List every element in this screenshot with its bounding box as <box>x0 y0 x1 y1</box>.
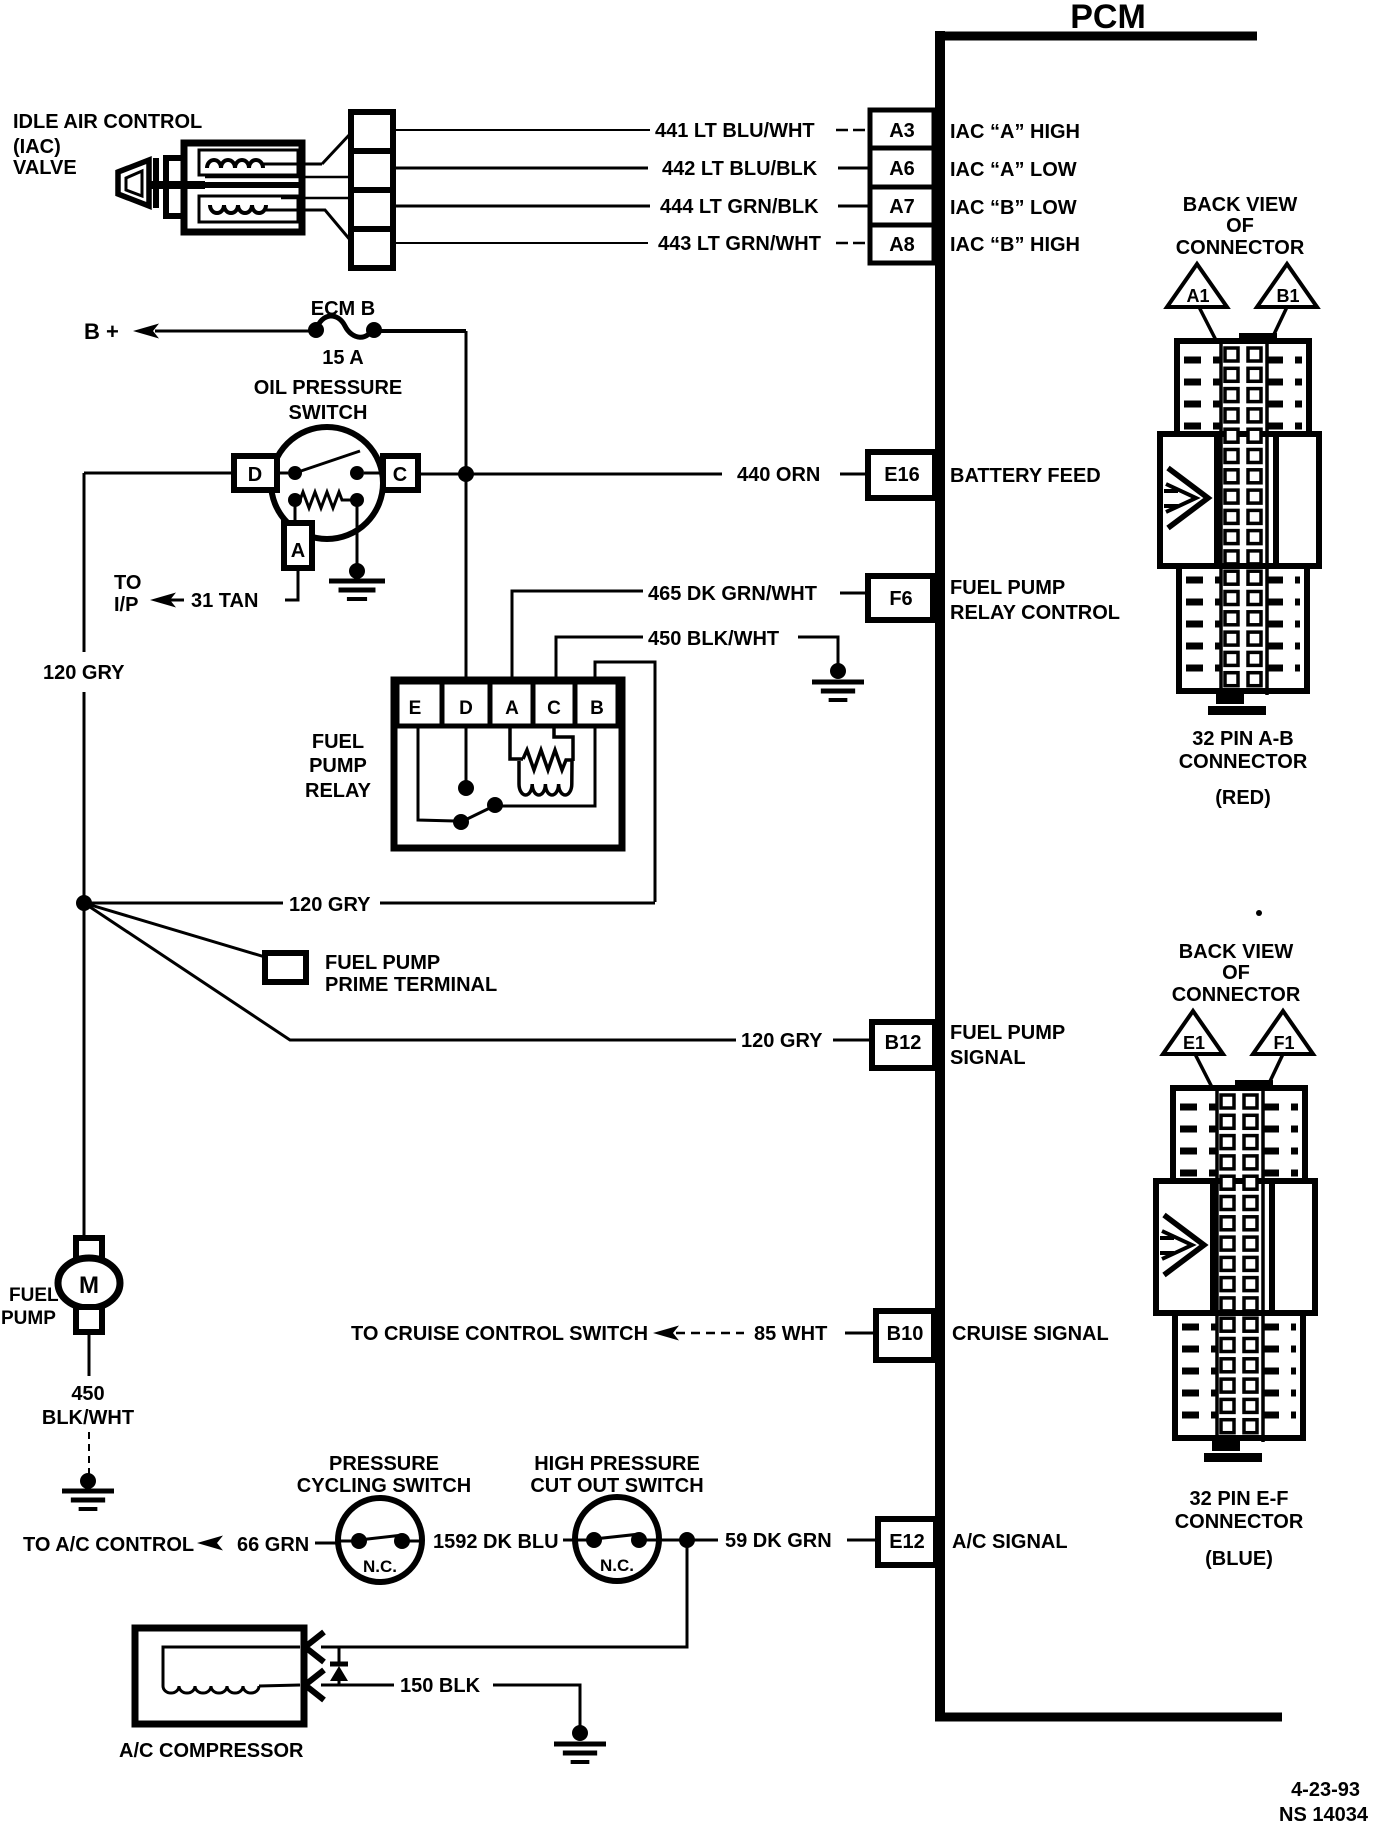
connector caption <box>1179 728 1308 809</box>
PCM boundary line <box>935 31 1282 1718</box>
label FUEL PUMP RELAY CONTROL <box>950 577 1120 624</box>
relay coil <box>510 726 573 795</box>
svg-text:SWITCH: SWITCH <box>289 402 368 424</box>
svg-text:441 LT BLU/WHT: 441 LT BLU/WHT <box>655 120 815 142</box>
wire vertical fuse to relay pin D <box>465 331 468 680</box>
svg-text:TO: TO <box>114 572 141 594</box>
IAC 4-pin connector strip <box>351 112 393 268</box>
svg-text:SIGNAL: SIGNAL <box>950 1047 1026 1069</box>
svg-text:E: E <box>409 698 422 719</box>
svg-text:IAC “B” LOW: IAC “B” LOW <box>950 197 1077 219</box>
wire relay pin B to 120 GRY bus <box>595 662 655 902</box>
wire 59 DK GRN <box>659 1539 718 1542</box>
arrow cruise <box>653 1326 679 1341</box>
svg-text:BATTERY FEED: BATTERY FEED <box>950 465 1101 487</box>
svg-text:IAC “A” HIGH: IAC “A” HIGH <box>950 121 1080 143</box>
IAC valve pintle cone <box>118 158 156 208</box>
svg-text:IAC “A” LOW: IAC “A” LOW <box>950 159 1077 181</box>
relay pin B <box>575 682 618 726</box>
wire 31 TAN to pin A <box>285 568 298 600</box>
svg-text:RELAY CONTROL: RELAY CONTROL <box>950 602 1120 624</box>
svg-text:BACK VIEW: BACK VIEW <box>1179 941 1294 963</box>
PCM pin A7 <box>870 187 934 225</box>
wire 120 GRY to B12 <box>84 903 736 1040</box>
svg-text:CONNECTOR: CONNECTOR <box>1175 1511 1304 1533</box>
svg-text:NS 14034: NS 14034 <box>1279 1804 1369 1826</box>
svg-text:120 GRY: 120 GRY <box>741 1030 823 1052</box>
relay pin A <box>490 682 533 726</box>
svg-text:150 BLK: 150 BLK <box>400 1675 481 1697</box>
svg-text:FUEL: FUEL <box>312 731 364 753</box>
svg-text:E1: E1 <box>1183 1033 1205 1053</box>
wire to prime terminal <box>84 903 265 957</box>
ground at 150 BLK <box>572 1725 588 1741</box>
junction at fuse drop <box>458 466 474 482</box>
svg-text:32 PIN E-F: 32 PIN E-F <box>1190 1488 1289 1510</box>
svg-text:PRESSURE: PRESSURE <box>329 1453 439 1475</box>
IAC valve stem <box>150 181 205 189</box>
svg-text:CUT OUT SWITCH: CUT OUT SWITCH <box>530 1475 703 1497</box>
svg-text:59 DK GRN: 59 DK GRN <box>725 1530 832 1552</box>
wire IAC coil A high to pin 1 <box>322 133 351 164</box>
svg-text:450: 450 <box>71 1383 104 1405</box>
svg-text:PRIME TERMINAL: PRIME TERMINAL <box>325 974 497 996</box>
relay switch common from pin D <box>465 726 468 782</box>
svg-text:D: D <box>459 698 473 719</box>
svg-text:F6: F6 <box>889 588 912 610</box>
svg-text:A/C COMPRESSOR: A/C COMPRESSOR <box>119 1740 304 1762</box>
ground at fuel pump <box>80 1473 96 1489</box>
svg-text:BLK/WHT: BLK/WHT <box>42 1407 134 1429</box>
wire IAC coil A low to pin 2 <box>205 176 351 179</box>
svg-text:32 PIN A-B: 32 PIN A-B <box>1192 728 1294 750</box>
PCM pin E16 <box>868 452 935 498</box>
relay pin E <box>397 682 442 726</box>
PCM pin B10 <box>876 1311 934 1360</box>
svg-text:B12: B12 <box>885 1032 922 1054</box>
svg-text:B: B <box>590 698 604 719</box>
svg-text:1592 DK BLU: 1592 DK BLU <box>433 1531 559 1553</box>
wire 120 GRY down to fuel pump <box>83 903 86 1238</box>
oil pressure switch pin C <box>383 456 418 490</box>
wire 441 <box>393 129 650 131</box>
svg-text:F1: F1 <box>1273 1033 1294 1053</box>
wire arrow to 31 TAN <box>164 599 184 602</box>
svg-text:E16: E16 <box>884 464 920 486</box>
svg-text:OF: OF <box>1226 215 1254 237</box>
svg-text:PCM: PCM <box>1070 0 1146 36</box>
svg-text:4-23-93: 4-23-93 <box>1291 1779 1360 1801</box>
svg-text:31 TAN: 31 TAN <box>191 590 258 612</box>
IAC coil A (top winding) <box>199 150 322 175</box>
label FUEL PUMP SIGNAL <box>950 1022 1065 1069</box>
wire 450 BLK/WHT from relay pin C <box>556 637 643 682</box>
svg-text:HIGH PRESSURE: HIGH PRESSURE <box>534 1453 700 1475</box>
wire B+ to fuse <box>155 330 316 333</box>
fuel pump relay box <box>394 680 622 848</box>
label TO I/P <box>114 572 141 616</box>
svg-text:FUEL PUMP: FUEL PUMP <box>325 952 440 974</box>
arrow to I/P <box>150 593 176 608</box>
drawing date <box>1279 1779 1369 1826</box>
PCM pin F6 <box>868 576 933 620</box>
svg-text:B +: B + <box>84 319 119 344</box>
fuse ECM B 15A <box>308 316 382 338</box>
svg-text:15 A: 15 A <box>322 347 364 369</box>
svg-text:IAC “B” HIGH: IAC “B” HIGH <box>950 234 1080 256</box>
connector back view title <box>1172 941 1301 1006</box>
switch contacts <box>277 451 383 480</box>
wire 85 WHT <box>676 1332 744 1335</box>
svg-text:C: C <box>393 464 407 486</box>
oil pressure switch pin A <box>284 523 312 568</box>
relay pin D <box>442 682 490 726</box>
fuel pump prime terminal <box>265 953 306 982</box>
svg-text:CONNECTOR: CONNECTOR <box>1172 984 1301 1006</box>
relay switch pole from pin E <box>418 726 455 821</box>
pin pointer E1 <box>1163 1011 1223 1099</box>
arrow into compressor top <box>305 1632 324 1662</box>
svg-text:IDLE AIR CONTROL: IDLE AIR CONTROL <box>13 111 202 133</box>
fuel pump relay label <box>305 731 372 802</box>
wire 465 DK GRN/WHT from relay pin A <box>512 591 643 682</box>
svg-text:N.C.: N.C. <box>363 1557 397 1576</box>
svg-text:B1: B1 <box>1276 286 1299 306</box>
svg-text:TO CRUISE CONTROL SWITCH: TO CRUISE CONTROL SWITCH <box>351 1323 648 1345</box>
IAC valve mounting bracket <box>166 158 184 216</box>
internal resistor <box>288 492 364 508</box>
connector back view title <box>1176 194 1305 259</box>
ground at 450 BLK/WHT <box>830 663 846 679</box>
wire 444 <box>393 205 650 208</box>
svg-text:E12: E12 <box>889 1531 925 1553</box>
wire 150 BLK <box>321 1684 394 1687</box>
svg-text:BACK VIEW: BACK VIEW <box>1183 194 1298 216</box>
IAC valve label <box>13 111 202 179</box>
fuel pump motor <box>58 1238 120 1332</box>
svg-text:CRUISE SIGNAL: CRUISE SIGNAL <box>952 1323 1109 1345</box>
svg-text:D: D <box>248 464 262 486</box>
diode at compressor clutch <box>330 1648 348 1685</box>
relay switch arm <box>461 805 496 822</box>
PCM pin E12 <box>878 1519 936 1565</box>
pressure cycling switch <box>338 1498 422 1582</box>
wire 450 BLK/WHT below pump <box>88 1332 91 1376</box>
svg-text:C: C <box>547 698 561 719</box>
PCM pin A6 <box>870 148 934 187</box>
junction 120 GRY <box>76 895 92 911</box>
svg-text:N.C.: N.C. <box>600 1556 634 1575</box>
wire IAC coil B low to pin 3 <box>281 197 351 200</box>
PCM pin B12 <box>872 1022 935 1068</box>
svg-text:(BLUE): (BLUE) <box>1205 1548 1273 1570</box>
arrow to B+ <box>133 324 159 339</box>
svg-text:B10: B10 <box>887 1323 924 1345</box>
svg-text:OF: OF <box>1222 962 1250 984</box>
svg-text:442 LT BLU/BLK: 442 LT BLU/BLK <box>662 158 818 180</box>
IAC coil B (bottom winding) <box>199 196 302 222</box>
svg-text:PUMP: PUMP <box>309 755 367 777</box>
svg-text:A1: A1 <box>1186 286 1209 306</box>
wire pin D to left bus <box>84 472 234 475</box>
svg-text:444 LT GRN/BLK: 444 LT GRN/BLK <box>660 196 819 218</box>
svg-text:CONNECTOR: CONNECTOR <box>1176 237 1305 259</box>
label high pressure cut out switch <box>530 1453 703 1497</box>
svg-text:CONNECTOR: CONNECTOR <box>1179 751 1308 773</box>
svg-text:FUEL: FUEL <box>9 1285 59 1306</box>
high pressure cut out switch <box>575 1497 659 1581</box>
junction A/C branch <box>679 1532 695 1548</box>
svg-text:OIL PRESSURE: OIL PRESSURE <box>254 377 403 399</box>
wire contact to ground <box>356 500 359 566</box>
pin pointer B1 <box>1257 264 1317 349</box>
svg-text:450 BLK/WHT: 450 BLK/WHT <box>648 628 779 650</box>
svg-text:440 ORN: 440 ORN <box>737 464 820 486</box>
svg-text:(IAC): (IAC) <box>13 136 61 158</box>
wire 442 <box>393 167 648 170</box>
svg-text:A: A <box>505 698 519 719</box>
ground at oil pressure switch <box>349 563 365 579</box>
oil pressure switch body <box>271 427 383 539</box>
oil pressure switch pin D <box>234 456 277 490</box>
wire left bus vertical (120 GRY) <box>83 473 86 652</box>
PCM pin A8 <box>870 225 934 263</box>
svg-text:TO A/C CONTROL: TO A/C CONTROL <box>23 1534 194 1556</box>
svg-text:120 GRY: 120 GRY <box>43 662 125 684</box>
svg-text:85 WHT: 85 WHT <box>754 1323 827 1345</box>
svg-text:A7: A7 <box>889 196 915 218</box>
svg-text:(RED): (RED) <box>1215 787 1271 809</box>
svg-text:I/P: I/P <box>114 594 138 616</box>
svg-text:PUMP: PUMP <box>1 1308 56 1329</box>
compressor clutch coil <box>163 1647 300 1693</box>
svg-text:M: M <box>79 1272 99 1299</box>
wire 443 <box>393 242 648 244</box>
PCM pin A3 <box>870 110 934 148</box>
wire fuse to PCM feed vertical <box>374 329 466 333</box>
label FUEL PUMP PRIME TERMINAL <box>325 952 497 996</box>
svg-text:120 GRY: 120 GRY <box>289 894 371 916</box>
svg-text:A: A <box>291 540 305 562</box>
svg-text:CYCLING SWITCH: CYCLING SWITCH <box>297 1475 471 1497</box>
connector body <box>1156 1080 1315 1462</box>
svg-text:465 DK GRN/WHT: 465 DK GRN/WHT <box>648 583 817 605</box>
wire 120 GRY horizontal <box>84 902 283 905</box>
wire 450 to ground <box>798 637 838 666</box>
label pressure cycling switch <box>297 1453 471 1497</box>
wire IAC coil B high to pin 4 <box>297 210 351 241</box>
pin pointer A1 <box>1167 264 1227 352</box>
wire 66 GRN to switch <box>315 1542 340 1545</box>
IAC valve body <box>184 143 302 232</box>
pin pointer F1 <box>1253 1011 1313 1096</box>
connector caption <box>1175 1488 1304 1570</box>
wire contact to pin A <box>294 500 297 523</box>
svg-text:A8: A8 <box>889 234 915 256</box>
oil pressure switch label <box>254 377 403 424</box>
svg-text:RELAY: RELAY <box>305 780 372 802</box>
svg-text:ECM B: ECM B <box>311 298 375 320</box>
arrow into compressor bottom <box>305 1670 324 1700</box>
svg-text:443 LT GRN/WHT: 443 LT GRN/WHT <box>658 233 821 255</box>
arrow to A/C control <box>197 1536 223 1551</box>
wire 440 ORN <box>418 473 722 476</box>
svg-text:66 GRN: 66 GRN <box>237 1534 309 1556</box>
A/C compressor box <box>135 1628 304 1724</box>
svg-text:FUEL PUMP: FUEL PUMP <box>950 1022 1065 1044</box>
relay pin C <box>533 682 575 726</box>
label FUEL PUMP (motor) <box>1 1285 59 1329</box>
label 450 BLK/WHT bottom <box>42 1383 134 1429</box>
wire A/C branch down to compressor <box>321 1540 687 1647</box>
svg-text:A3: A3 <box>889 120 915 142</box>
wire arm to pin B <box>495 726 595 806</box>
svg-text:VALVE: VALVE <box>13 157 77 179</box>
svg-text:FUEL PUMP: FUEL PUMP <box>950 577 1065 599</box>
svg-text:A6: A6 <box>889 158 915 180</box>
svg-text:A/C SIGNAL: A/C SIGNAL <box>952 1531 1068 1553</box>
connector body <box>1160 333 1319 715</box>
wire 1592 to HP switch <box>563 1539 576 1542</box>
